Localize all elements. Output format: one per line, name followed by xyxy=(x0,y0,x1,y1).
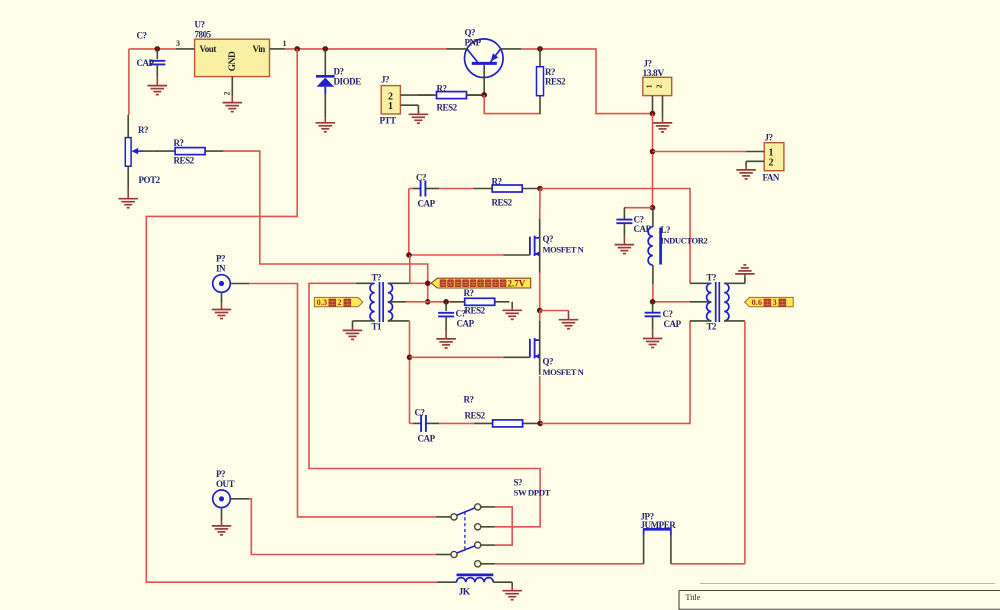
wire C5 left lead xyxy=(409,188,413,190)
inductor JK winding xyxy=(457,578,494,583)
wire C7 to R7 xyxy=(439,422,474,424)
J2 pin 1 lead xyxy=(652,96,654,114)
svg-text:FAN: FAN xyxy=(763,173,780,183)
capacitor C3 stem bottom xyxy=(652,316,654,330)
svg-text:R?: R? xyxy=(464,288,474,298)
junction source1 xyxy=(537,308,543,314)
wire LC node to C2 xyxy=(626,207,653,209)
capacitor C2 (CAP) xyxy=(616,220,632,224)
switch S1 blade2 xyxy=(457,546,475,553)
svg-text:1: 1 xyxy=(283,39,287,48)
T1 pin left-bottom xyxy=(353,321,375,327)
wire throw2-bottom to jumper xyxy=(495,563,644,565)
flag 0.6-strand 3-turns xyxy=(745,297,794,307)
svg-text:P?: P? xyxy=(216,254,225,264)
svg-text:RES2: RES2 xyxy=(545,77,566,87)
ground below U1 xyxy=(223,96,243,111)
U1 pin 1 (Vin) xyxy=(270,48,286,50)
ground at J2 pin2 xyxy=(653,117,673,132)
wire source2 node to T2 left-bottom xyxy=(540,321,690,424)
svg-text:R?: R? xyxy=(174,138,184,148)
J3 pin 2 lead xyxy=(746,161,764,166)
svg-text:J?: J? xyxy=(381,75,389,85)
capacitor C5 (CAP) xyxy=(421,181,426,197)
potentiometer R3 bottom pin xyxy=(127,166,129,189)
J3 pin 1 lead xyxy=(746,151,764,153)
ground at Q2 source xyxy=(559,311,579,329)
capacitor C6 stem top xyxy=(445,302,447,311)
svg-text:RES2: RES2 xyxy=(437,103,458,113)
transformer T1 primary winding xyxy=(370,283,375,321)
wire Q1 base to R2 bottom xyxy=(484,95,540,114)
transformer T1 core xyxy=(380,282,384,322)
ground at J1 pin1 xyxy=(409,111,429,123)
wire source2 down xyxy=(539,376,541,424)
wire bias node to C6/R6 xyxy=(406,301,466,303)
junction R2/top-rail xyxy=(537,46,543,52)
svg-text:CAP: CAP xyxy=(418,199,436,209)
ground below C3 xyxy=(643,330,663,348)
connector J1 PTT box xyxy=(381,86,400,114)
wire drain rail to T2 xyxy=(540,189,690,284)
svg-text:3: 3 xyxy=(773,297,777,307)
capacitor C1 (CAP) xyxy=(149,61,165,65)
inductor L1 core bar xyxy=(659,228,662,265)
wire T2 secondary to output row xyxy=(744,321,746,564)
ground below D1 xyxy=(316,118,336,132)
wire long left net xyxy=(146,49,437,582)
wire T1 right-bottom down xyxy=(409,321,411,424)
svg-text:OUT: OUT xyxy=(216,479,235,489)
P1 ground stem xyxy=(221,292,223,304)
svg-text:RES2: RES2 xyxy=(465,411,486,421)
regulator U1 box xyxy=(195,39,270,76)
svg-text:C?: C? xyxy=(137,31,147,41)
svg-text:CAP: CAP xyxy=(418,434,436,444)
junction drain1 xyxy=(537,186,543,192)
connector P1 IN xyxy=(213,275,231,293)
wire wiper to R4 xyxy=(143,150,158,152)
J1 pin 2 lead xyxy=(400,94,433,96)
wire source1 down xyxy=(539,273,541,311)
capacitor C3 (CAP) xyxy=(645,313,661,317)
svg-text:T?: T? xyxy=(372,273,382,283)
svg-text:JK: JK xyxy=(459,588,471,598)
svg-text:J?: J? xyxy=(765,133,773,143)
capacitor C2 stem bottom xyxy=(623,223,625,236)
wire source1 to Q3 drain xyxy=(539,311,541,323)
svg-text:Vin: Vin xyxy=(253,44,266,54)
svg-text:MOSFET N: MOSFET N xyxy=(543,245,585,255)
capacitor C5 pins xyxy=(413,188,439,190)
svg-text:Q?: Q? xyxy=(543,234,554,244)
svg-text:Q?: Q? xyxy=(465,28,476,38)
svg-text:CAP: CAP xyxy=(457,319,475,329)
T1 pin right-middle xyxy=(388,301,406,303)
ground at T1 left-bottom xyxy=(343,327,363,339)
title block top faint line xyxy=(700,583,995,585)
T2 pin left-middle xyxy=(690,301,712,303)
svg-text:13.8V: 13.8V xyxy=(643,69,665,79)
capacitor C7 (CAP) xyxy=(421,415,426,432)
junction C6 top xyxy=(443,299,449,305)
wire gate1 line xyxy=(409,254,504,256)
wire OUT to switch common2 xyxy=(249,499,436,555)
svg-text:U?: U? xyxy=(195,20,205,30)
junction left-branch/top-rail xyxy=(294,46,300,52)
transistor Q2 MOSFET N xyxy=(504,219,541,273)
capacitor C6 stem bottom xyxy=(445,316,447,330)
wire corner to C7 xyxy=(410,422,414,424)
T2 pin right-top xyxy=(724,278,745,284)
T1 pin right-top xyxy=(388,282,410,284)
T2 pin left-top xyxy=(690,282,711,284)
resistor R7 RES2 xyxy=(474,420,541,427)
S1 throw2-bottom stub xyxy=(481,563,495,565)
wire 13.8V down to LC node xyxy=(652,114,654,208)
svg-text:Q?: Q? xyxy=(543,357,554,367)
junction bias mid xyxy=(425,299,431,305)
potentiometer R3 top pin xyxy=(127,115,129,138)
junction LC node xyxy=(650,205,656,211)
svg-text:7805: 7805 xyxy=(195,29,212,39)
resistor R5 RES2 xyxy=(474,185,541,192)
P2 ground stem xyxy=(221,508,223,520)
ground below C1 xyxy=(148,77,168,95)
wire source1 to ground xyxy=(540,310,569,312)
J1 pin 1 lead xyxy=(400,105,418,113)
capacitor C7 pins xyxy=(414,422,440,424)
wire IN to switch common1 xyxy=(249,284,436,517)
svg-text:IN: IN xyxy=(216,264,226,274)
transformer T1 secondary winding xyxy=(388,283,393,321)
svg-text:2: 2 xyxy=(769,158,774,169)
svg-text:PNP: PNP xyxy=(465,38,482,48)
S1 throw1-bottom stub xyxy=(481,526,495,528)
svg-text:SW DPDT: SW DPDT xyxy=(514,488,551,498)
T2 pin left-bottom xyxy=(690,320,711,322)
svg-text:RES2: RES2 xyxy=(465,306,486,316)
junction 13.8V feed xyxy=(650,111,656,117)
ground at R6 xyxy=(502,307,522,320)
switch S1 common2 contact xyxy=(451,551,457,557)
S1 throw2-top stub xyxy=(481,544,495,546)
svg-text:GND: GND xyxy=(228,51,238,71)
svg-text:R?: R? xyxy=(464,395,474,405)
svg-text:1: 1 xyxy=(388,101,393,112)
S1 common1 stub xyxy=(436,516,451,518)
junction C1/top xyxy=(155,46,161,52)
diode D1 symbol xyxy=(316,76,335,94)
ground at J3 pin2 xyxy=(736,166,756,179)
ground at JK xyxy=(502,586,522,600)
resistor R2 RES2 xyxy=(537,48,544,114)
svg-text:J?: J? xyxy=(644,59,652,69)
ground below R3 xyxy=(118,189,138,207)
transistor Q1 PNP xyxy=(447,39,522,95)
svg-text:2: 2 xyxy=(338,297,342,307)
resistor R1 RES2 xyxy=(418,92,485,99)
svg-text:C?: C? xyxy=(415,408,425,418)
switch S1 throw2-top contact xyxy=(475,542,481,548)
transformer T2 primary winding xyxy=(707,283,712,321)
capacitor C1 bottom pin xyxy=(156,64,158,76)
capacitor C6 (CAP) xyxy=(438,313,454,317)
U1 pin 2 (GND) xyxy=(231,77,233,97)
diode D1 bottom pin xyxy=(324,94,326,117)
switch S1 throw1-bottom contact xyxy=(475,524,481,530)
diode D1 top pin xyxy=(324,49,326,75)
connector J3 FAN box xyxy=(764,143,784,171)
R6 right lead to ground xyxy=(511,302,513,307)
wire top rail U1 to Q1 xyxy=(285,48,447,50)
svg-text:2: 2 xyxy=(223,92,232,96)
inductor L1 top pin xyxy=(652,208,654,227)
wire L1 to T2 mid xyxy=(653,284,690,302)
wire C5 to R5 xyxy=(439,188,474,190)
svg-text:PTT: PTT xyxy=(380,116,397,126)
svg-text:T2: T2 xyxy=(707,322,718,332)
potentiometer R3 body xyxy=(125,138,131,167)
svg-text:C?: C? xyxy=(634,215,644,225)
switch S1 common1 contact xyxy=(451,514,457,520)
switch S1 link (dashed) xyxy=(464,512,466,551)
ground below P1 xyxy=(212,304,232,319)
svg-text:JUMPER: JUMPER xyxy=(641,520,677,530)
switch S1 throw2-bottom contact xyxy=(475,561,481,567)
svg-text:2.7V: 2.7V xyxy=(508,279,526,289)
svg-text:CAP: CAP xyxy=(664,319,682,329)
inverted ground at T2 right-top xyxy=(735,265,755,278)
wire jumper to T2 net xyxy=(671,563,745,565)
svg-text:POT2: POT2 xyxy=(139,175,161,185)
junction T2 mid node xyxy=(650,299,656,305)
svg-text:D?: D? xyxy=(334,67,344,77)
svg-text:0.6: 0.6 xyxy=(752,297,763,307)
inductor L1 bottom pin xyxy=(652,265,654,284)
svg-text:L?: L? xyxy=(661,225,671,235)
svg-text:MOSFET N: MOSFET N xyxy=(543,367,585,377)
J2 pin 2 lead xyxy=(662,96,664,117)
connector P2 OUT xyxy=(213,490,231,508)
svg-text:T1: T1 xyxy=(372,322,383,332)
capacitor C1 top pin xyxy=(156,49,158,59)
transistor Q3 MOSFET N xyxy=(504,321,541,375)
jumper JP1 pin 1 xyxy=(643,536,645,564)
switch S1 blade1 xyxy=(457,508,475,515)
inductor JK core bar xyxy=(457,574,494,577)
junction source2/R7 xyxy=(537,421,543,427)
wire to FAN xyxy=(653,151,747,153)
wire gate1 to T1 right-top xyxy=(410,255,428,283)
capacitor C2 stem top xyxy=(624,208,626,220)
jumper JP1 pin 2 xyxy=(670,536,672,564)
T1 pin left-top xyxy=(356,282,375,284)
wire gate2 line xyxy=(410,356,504,358)
svg-text:R?: R? xyxy=(138,125,148,135)
svg-text:T?: T? xyxy=(707,273,717,283)
T1 pin right-bottom xyxy=(388,320,410,322)
jumper JP1 bracket xyxy=(644,528,671,536)
T2 pin right-bottom xyxy=(724,320,745,322)
connector J2 13.8V box xyxy=(643,77,672,95)
P1 pin lead xyxy=(230,283,249,285)
potentiometer R3 wiper arrow xyxy=(131,148,143,154)
svg-text:C?: C? xyxy=(416,173,426,183)
wire R1 to Q1 base pin xyxy=(466,94,485,96)
junction gate2 xyxy=(407,355,413,361)
wire T1 primary to switch throw1-bottom xyxy=(309,283,540,527)
svg-text:R?: R? xyxy=(437,84,447,94)
ground below C6 xyxy=(436,330,456,348)
wire gate1 vertical xyxy=(408,189,410,256)
inductor JK right pin xyxy=(493,582,512,586)
svg-text:R?: R? xyxy=(492,177,502,187)
switch S1 throw1-top contact xyxy=(475,504,481,510)
svg-text:R?: R? xyxy=(545,67,555,77)
ground below P2 xyxy=(212,520,232,535)
callout adjust-bias-voltage 2.7V xyxy=(431,278,531,288)
svg-text:INDUCTOR2: INDUCTOR2 xyxy=(661,236,708,246)
resistor R4 RES2 xyxy=(157,148,224,155)
wire R4 to bias node xyxy=(223,151,428,302)
junction D1/top-rail xyxy=(323,46,329,52)
junction gate1 xyxy=(406,252,412,258)
wire throws-top tie xyxy=(495,507,513,545)
flag 0.3-strand 2-turns xyxy=(314,297,363,307)
svg-text:S?: S? xyxy=(514,478,523,488)
junction Q1 base xyxy=(481,92,487,98)
ground below C2 xyxy=(615,236,635,254)
wire drain1 down xyxy=(539,189,541,220)
junction T1 right-top net xyxy=(425,281,431,287)
S1 throw1-top stub xyxy=(481,506,495,508)
svg-text:3: 3 xyxy=(176,39,180,48)
svg-text:0.3: 0.3 xyxy=(317,297,328,307)
svg-text:Vout: Vout xyxy=(200,44,217,54)
transformer T2 secondary winding xyxy=(724,283,729,321)
inductor JK left pin xyxy=(437,581,457,583)
P2 pin lead xyxy=(230,498,249,500)
capacitor C3 stem top xyxy=(652,302,654,313)
U1 pin 3 (Vout) xyxy=(176,48,195,50)
wire VIN top-left xyxy=(129,48,176,50)
title block border xyxy=(679,591,1000,610)
resistor R6 RES2 xyxy=(450,298,509,305)
svg-text:C?: C? xyxy=(663,309,673,319)
svg-text:RES2: RES2 xyxy=(492,198,513,208)
transformer T2 core xyxy=(716,282,720,322)
svg-text:CAP: CAP xyxy=(137,58,155,68)
svg-text:P?: P? xyxy=(216,469,225,479)
inductor L1 INDUCTOR2 xyxy=(648,227,653,265)
S1 common2 stub xyxy=(436,554,451,556)
wire pot feed down-left xyxy=(128,49,130,115)
wire Q1 emitter to corner, down to 13.8V feed xyxy=(521,49,653,114)
svg-text:Title: Title xyxy=(686,593,701,602)
junction FAN feed xyxy=(650,149,656,155)
svg-text:DIODE: DIODE xyxy=(334,77,362,87)
svg-text:RES2: RES2 xyxy=(174,156,195,166)
